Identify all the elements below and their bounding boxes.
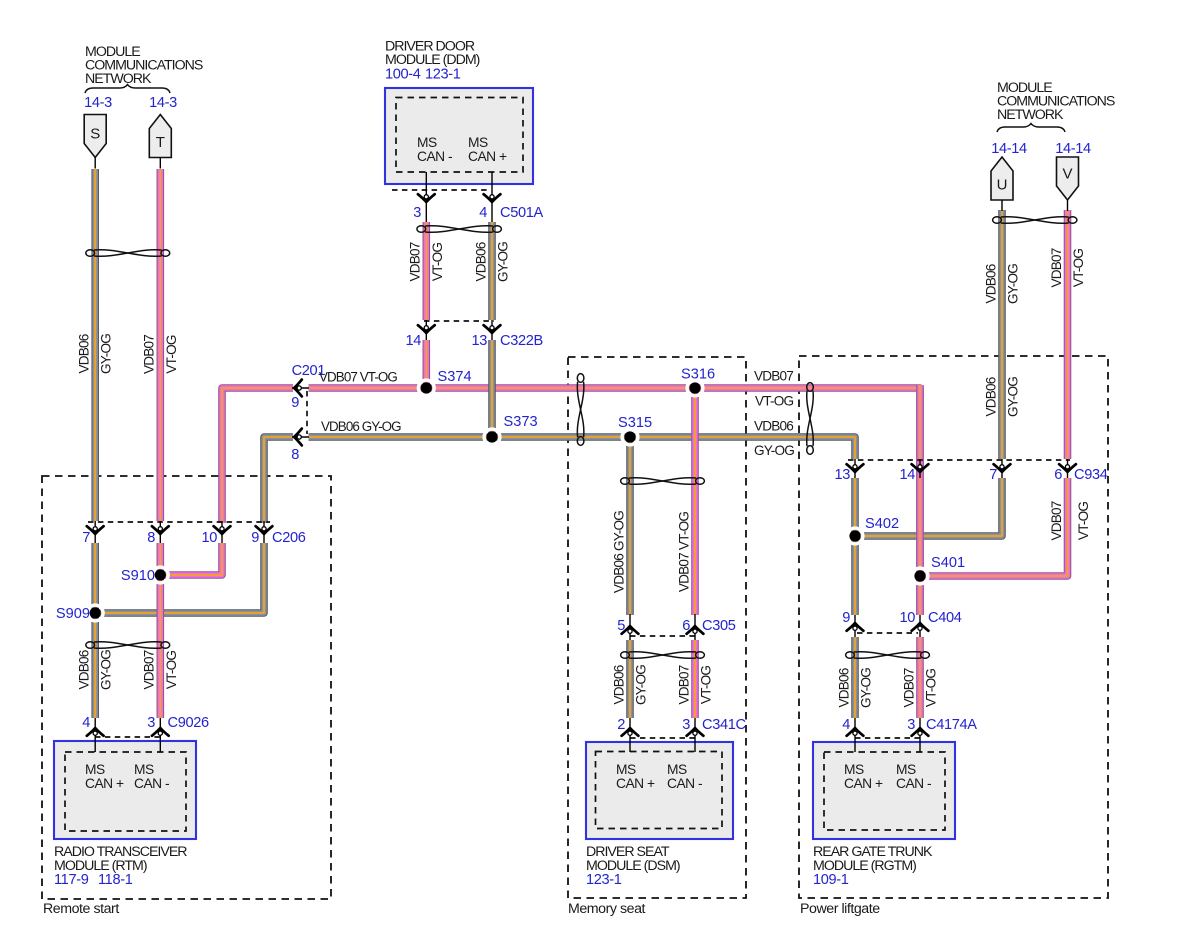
svg-text:3: 3 [907,717,915,733]
pin 8 of C201 [292,429,309,446]
pin labels C501A [413,205,543,221]
brace module communications network right [997,124,1065,133]
svg-text:C4174A: C4174A [926,717,977,733]
svg-text:NETWORK: NETWORK [85,71,152,87]
pin 13 of C322B [484,320,501,340]
pin 6 of C305 [687,614,704,640]
wire label VDB07 VT-OG terminal V drop [1049,248,1086,287]
pin 5 of C305 [622,614,639,640]
splice S316 [681,367,715,396]
svg-text:VT-OG: VT-OG [164,651,179,690]
label REAR GATE TRUNK MODULE [813,844,933,874]
svg-text:C305: C305 [702,618,736,634]
pin 2 of C341C [622,718,639,752]
svg-text:C322B: C322B [500,333,543,349]
svg-text:GY-OG: GY-OG [1006,264,1021,304]
svg-text:7: 7 [989,467,997,483]
svg-text:MODULE (DDM): MODULE (DDM) [385,52,480,68]
svg-text:C9026: C9026 [168,715,209,731]
svg-text:14: 14 [405,333,421,349]
svg-text:MS: MS [468,135,488,150]
svg-text:13: 13 [471,333,487,349]
wire VDB06 liftgate drop S402 to C404 [851,478,859,615]
twisted pair DSM pigtails [621,652,705,659]
svg-text:T: T [156,134,165,151]
module box RGTM [813,742,955,839]
svg-text:10: 10 [201,530,217,546]
module box DSM [586,742,733,839]
svg-text:U: U [997,177,1008,194]
svg-text:9: 9 [251,530,259,546]
connector link C305 [630,635,696,637]
svg-text:GY-OG: GY-OG [1006,377,1021,417]
wire VDB06 C322B to S373 [488,340,496,437]
svg-text:MS: MS [616,762,636,777]
wire label VDB07 VT-OG RTM pigtail [142,650,179,689]
twisted pair RGTM pigtails [846,652,930,659]
connector link C4174A [855,737,920,739]
svg-text:CAN -: CAN - [896,776,931,791]
svg-text:VDB06: VDB06 [77,334,92,373]
svg-text:S909: S909 [56,606,90,622]
label module communications network right [997,80,1115,123]
connector terminal T [149,115,171,169]
svg-text:VDB06 GY-OG: VDB06 GY-OG [321,419,401,434]
wire VDB06 DSM pigtail pin2 [626,640,634,718]
svg-text:CAN -: CAN - [134,776,169,791]
wire VDB06 S315 drop to C305 [626,437,634,615]
twisted pair S/T wires [86,250,170,257]
pin labels C341C [617,717,745,733]
wire label VDB07 VT-OG DSM drop [676,512,691,593]
svg-text:S373: S373 [504,414,538,430]
page reference 117-9 118-1 [54,872,133,888]
wire label VDB07 VT-OG DSM pigtail [676,665,713,704]
svg-text:MS: MS [896,762,916,777]
wire label VDB06 GY-OG RGTM pigtail [836,668,873,708]
pin labels C9026 [82,715,209,731]
svg-text:CAN +: CAN + [85,776,124,791]
module box DDM [385,88,533,184]
wire VDB06 from terminal S [91,169,99,521]
wire VDB06 bus main [309,437,856,459]
wire VDB06 S402 branch to module U drop [855,478,1002,536]
svg-text:14: 14 [899,467,915,483]
twisted pair DSM drops [621,478,705,485]
wire VDB07 from terminal T [157,169,165,521]
svg-text:VT-OG: VT-OG [924,669,939,708]
svg-text:VDB06: VDB06 [611,665,626,704]
pin 9 of C206 [256,521,273,543]
svg-text:4: 4 [479,205,487,221]
svg-text:Power liftgate: Power liftgate [800,901,880,917]
dashed box Memory seat [568,357,746,898]
svg-text:MS: MS [417,135,437,150]
connector link C201 [306,391,308,434]
dashed box Power liftgate [799,356,1108,898]
wire VDB06 S909 branch [95,543,264,613]
svg-text:123-1: 123-1 [586,872,622,888]
wire VDB06 bus left of C201 [264,437,293,523]
svg-text:VT-OG: VT-OG [164,335,179,374]
connector link C934 [848,459,1070,461]
wire label VDB06 GY-OG DDM pin4 [473,242,510,282]
pin 3 of C341C [687,718,704,752]
wire VDB07 bus main [309,388,921,615]
wire VDB07 C322B to S374 [422,340,430,388]
svg-text:GY-OG: GY-OG [634,665,649,705]
connector terminal V [1057,157,1079,211]
connector label C201 [291,363,325,463]
splice S401 [912,555,965,584]
connector link C206 [88,521,270,523]
svg-text:2: 2 [617,717,625,733]
wire label VDB07 VT-OG RGTM pigtail [901,668,938,707]
svg-text:Memory seat: Memory seat [568,901,646,917]
twisted pair U/V wires [993,217,1077,224]
wire VDB06 RTM pigtail pin4 [91,543,99,718]
svg-text:GY-OG: GY-OG [496,242,511,282]
svg-text:VDB06: VDB06 [836,668,851,707]
pin 14 of C322B [418,320,435,340]
svg-text:3: 3 [413,205,421,221]
pin 10 of C206 [214,521,231,543]
svg-text:V: V [1062,166,1072,183]
svg-text:C404: C404 [928,610,962,626]
svg-text:CAN +: CAN + [468,149,507,164]
pin labels C305 [617,618,736,634]
twisted pair RTM pigtails [86,642,170,649]
wire VDB06 RGTM pigtail pin4 [851,637,859,718]
twisted pair DDM drops [417,226,502,233]
wire VDB07 drop from terminal V [1064,210,1072,459]
svg-text:123-1: 123-1 [425,67,461,83]
pin 6 of C934 [1059,459,1076,478]
pin 4 of C501A [484,172,501,222]
svg-text:S402: S402 [865,516,899,532]
pin 13 of C934 [847,459,864,478]
svg-text:14-3: 14-3 [149,95,177,111]
svg-text:C934: C934 [1074,467,1108,483]
splice S373 [484,414,537,445]
pin 9 of C404 [847,615,864,637]
pin 3 of C501A [418,172,435,222]
svg-text:C341C: C341C [702,717,746,733]
label DRIVER DOOR MODULE [385,39,480,69]
splice S374 [418,369,471,396]
pin 8 of C206 [152,521,169,543]
svg-text:100-4: 100-4 [385,67,421,83]
svg-text:VT-OG: VT-OG [430,243,445,282]
connector terminal U [991,157,1013,211]
wire VDB07 S401 branch to terminal V drop [920,478,1068,576]
page reference 100-4 123-1 [385,67,461,83]
svg-text:VDB07: VDB07 [142,650,157,689]
wire VDB07 bus right drop (over S402 branch) [916,385,924,615]
wire label VDB07 VT-OG terminal T drop [142,335,179,374]
svg-text:VDB07: VDB07 [901,668,916,707]
wire label VDB06 GY-OG RTM pigtail [77,650,114,690]
label module communications network left [85,44,203,87]
svg-text:117-9: 117-9 [54,872,89,888]
brace module communications network left [85,85,170,94]
svg-text:S: S [90,126,100,143]
svg-text:4: 4 [82,715,90,731]
label RADIO TRANSCEIVER MODULE [54,844,187,874]
svg-text:GY-OG: GY-OG [754,443,794,458]
svg-text:VDB07 VT-OG: VDB07 VT-OG [319,370,397,385]
svg-text:VDB07 VT-OG: VDB07 VT-OG [676,512,691,593]
svg-text:5: 5 [617,618,625,634]
twisted pair bus at memory seat [577,374,584,446]
svg-text:MS: MS [667,762,687,777]
svg-text:VT-OG: VT-OG [699,666,714,705]
wire VDB07 bus left of C201 [222,388,293,523]
svg-text:VDB07: VDB07 [1049,501,1064,540]
svg-text:3: 3 [682,717,690,733]
splice S402 [847,516,899,544]
svg-text:CAN +: CAN + [844,776,883,791]
svg-text:CAN -: CAN - [667,776,702,791]
svg-text:VDB07: VDB07 [142,335,157,374]
wire label VDB07 VT-OG liftgate V drop [1049,501,1091,540]
connector link C322B [424,320,494,322]
svg-text:9: 9 [842,610,850,626]
splice S909 [56,605,103,622]
svg-text:6: 6 [1054,467,1062,483]
svg-text:118-1: 118-1 [98,872,133,888]
connector link C341C [630,737,696,739]
pin 7 of C206 [87,521,104,543]
svg-text:VT-OG: VT-OG [1076,502,1091,541]
wire label VDB06 GY-OG terminal U drop [983,264,1020,304]
svg-text:VDB07: VDB07 [408,242,423,281]
label DRIVER SEAT MODULE [586,844,680,874]
pin labels C322B [405,333,542,349]
pin labels C206 [82,530,306,546]
svg-text:7: 7 [82,530,90,546]
svg-text:VDB06: VDB06 [754,419,793,434]
svg-text:VDB07: VDB07 [754,369,793,384]
svg-text:MS: MS [85,762,105,777]
svg-text:8: 8 [291,447,299,463]
wire VDB07 RGTM pigtail pin3 [916,637,924,718]
pin labels C934 [834,467,1107,483]
svg-text:VDB07: VDB07 [676,665,691,704]
svg-text:14-14: 14-14 [991,141,1027,157]
svg-text:VDB07: VDB07 [1049,248,1064,287]
svg-text:14-14: 14-14 [1055,141,1091,157]
svg-text:GY-OG: GY-OG [99,650,114,690]
wire label VDB06 GY-OG terminal S drop [77,334,114,374]
wire VDB07 DDM pin3 drop [422,222,430,320]
svg-text:VDB06: VDB06 [77,650,92,689]
svg-text:VDB06: VDB06 [983,264,998,303]
pin 14 of C934 [912,459,929,478]
svg-text:S374: S374 [438,369,472,385]
pin 3 of C9026 [152,718,169,752]
svg-text:S910: S910 [121,568,155,584]
svg-text:CAN -: CAN - [417,149,452,164]
pin labels C4174A [842,717,977,733]
svg-text:4: 4 [842,717,850,733]
svg-text:10: 10 [899,610,915,626]
wire VDB07 DSM pigtail pin3 [691,640,699,718]
svg-text:6: 6 [682,618,690,634]
wire VDB07 RTM pigtail pin3 [157,543,165,718]
svg-text:S316: S316 [681,367,715,383]
wire label VDB06 GY-OG liftgate drop [983,377,1020,417]
svg-text:CAN +: CAN + [616,776,655,791]
svg-text:S315: S315 [618,415,652,431]
connector terminal S [84,115,106,169]
svg-text:9: 9 [291,395,299,411]
wire VDB06 drop from terminal U [998,210,1006,459]
svg-text:C501A: C501A [500,205,543,221]
pin labels C404 [842,610,962,626]
svg-text:MS: MS [134,762,154,777]
wire VDB06 DDM pin4 drop [488,222,496,320]
svg-text:VT-OG: VT-OG [755,394,794,409]
svg-text:13: 13 [834,467,850,483]
dashed box Remote start [42,476,331,899]
wire label VDB06 GY-OG DSM pigtail [611,665,648,705]
svg-text:3: 3 [147,715,155,731]
svg-text:C206: C206 [272,530,306,546]
connector link C404 [857,632,918,634]
svg-text:NETWORK: NETWORK [997,107,1064,123]
svg-text:VDB06: VDB06 [983,377,998,416]
pin 10 of C404 [912,615,929,637]
svg-text:VDB06: VDB06 [473,242,488,281]
twisted pair bus at liftgate [807,383,814,455]
svg-text:MS: MS [844,762,864,777]
wire label VDB06 GY-OG DSM drop [611,511,626,593]
svg-text:109-1: 109-1 [813,872,849,888]
pin 7 of C934 [994,459,1011,478]
wire VDB07 S910 branch [160,543,222,575]
svg-text:14-3: 14-3 [84,95,112,111]
splice S315 [618,415,652,445]
svg-text:GY-OG: GY-OG [99,334,114,374]
svg-text:Remote start: Remote start [43,901,119,917]
pin 4 of C4174A [847,718,864,752]
module box RTM [54,741,196,839]
connector link C501A [392,189,488,191]
wire VDB07 S316 drop to C305 [691,388,699,615]
svg-text:GY-OG: GY-OG [859,668,874,708]
splice S910 [121,567,168,584]
svg-text:VT-OG: VT-OG [1071,249,1086,288]
svg-text:8: 8 [147,530,155,546]
connector link C9026 [95,736,160,738]
pin 3 of C4174A [912,718,929,752]
pin 9 of C201 [292,380,309,397]
bus labels right gap [754,369,794,459]
svg-text:S401: S401 [931,555,965,571]
wire label VDB07 VT-OG DDM pin3 [408,242,445,281]
pin 4 of C9026 [87,718,104,752]
svg-text:VDB06 GY-OG: VDB06 GY-OG [611,511,626,593]
